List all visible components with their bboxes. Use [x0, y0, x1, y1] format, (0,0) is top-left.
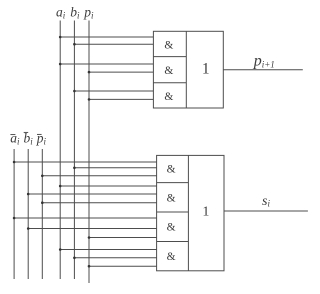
svg-text:&: &: [164, 39, 173, 51]
svg-text:&: &: [167, 163, 176, 175]
svg-text:&: &: [167, 192, 176, 204]
svg-text:&: &: [167, 222, 176, 234]
svg-text:&: &: [167, 251, 176, 263]
svg-text:pi: pi: [36, 131, 47, 147]
svg-text:ai: ai: [56, 5, 66, 21]
svg-text:1: 1: [202, 61, 210, 78]
svg-text:ai: ai: [10, 131, 20, 147]
svg-text:pi: pi: [83, 5, 94, 21]
svg-text:1: 1: [202, 204, 209, 219]
svg-text:&: &: [164, 65, 173, 77]
svg-text:pi+1: pi+1: [253, 52, 275, 69]
svg-text:si: si: [262, 194, 270, 209]
svg-text:&: &: [164, 91, 173, 103]
svg-text:bi: bi: [24, 131, 34, 147]
svg-text:bi: bi: [70, 5, 80, 21]
